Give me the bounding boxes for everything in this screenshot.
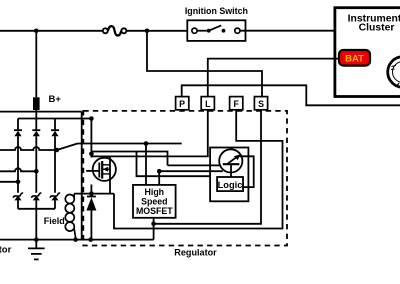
rectifier bottom bus bbox=[18, 208, 55, 210]
node junction dot B+ bus bbox=[89, 116, 94, 121]
transistor Q2 base stem to logic bbox=[230, 164, 232, 177]
fuse F1 left terminal circle bbox=[103, 28, 108, 33]
wire logic feed inside box bbox=[210, 170, 223, 172]
diode D4 avalanche bottom column1 bbox=[13, 193, 23, 200]
alternator case box (right edge) bbox=[81, 112, 83, 240]
svg-text:Ignition Switch: Ignition Switch bbox=[185, 6, 248, 16]
branch wire down to lower logic feed bbox=[137, 152, 211, 177]
svg-text:BAT: BAT bbox=[345, 53, 364, 64]
wire flyback diode anode to ground bus bbox=[90, 211, 92, 240]
svg-text:High: High bbox=[145, 187, 165, 197]
voltmeter gauge needle bbox=[397, 83, 400, 87]
instrument cluster box bbox=[335, 8, 400, 97]
node junction dot at fuse/alternator tap bbox=[145, 29, 150, 34]
ignition switch blade bbox=[209, 25, 222, 30]
node junction dot on main bus at B+ drop bbox=[34, 29, 39, 34]
svg-text:B+: B+ bbox=[49, 94, 62, 105]
voltmeter tiny dial markings bbox=[392, 66, 397, 67]
field node X stub (lower segment) bbox=[90, 185, 92, 197]
svg-text:P: P bbox=[179, 99, 185, 109]
diode D5 avalanche bottom column2 bbox=[32, 193, 42, 200]
MOSFET Q1 gate wire stub bbox=[86, 170, 99, 172]
node junction dot S sense tie bbox=[151, 222, 156, 227]
rectifier top bus (B+) bbox=[18, 118, 91, 120]
node junction dot driver stub bbox=[157, 169, 162, 174]
terminal box L bbox=[201, 97, 214, 110]
node junction dot field node X bbox=[89, 191, 94, 196]
svg-text:Cluster: Cluster bbox=[359, 22, 395, 33]
wire base feed inside box bbox=[210, 164, 223, 166]
wire junction down to S-terminal feed bbox=[147, 31, 262, 97]
B+ rail vertical inside regulator (upper segment) bbox=[90, 119, 92, 158]
fuse F1 squiggle element bbox=[108, 26, 121, 35]
wire emitter to F net bbox=[240, 156, 254, 187]
stator phase lead 3 with hops over columns bbox=[0, 147, 57, 150]
terminal box F bbox=[230, 97, 243, 110]
terminal box P bbox=[176, 97, 189, 110]
node junction dot phase2 bbox=[34, 169, 39, 174]
MOSFET Q1 drain riser bbox=[109, 156, 111, 164]
ignition switch contact dot right bbox=[222, 29, 226, 33]
wire field top lead to node X bbox=[73, 193, 75, 196]
svg-text:L: L bbox=[205, 99, 211, 109]
svg-text:Logic: Logic bbox=[218, 180, 243, 190]
voltmeter gauge inner dial arc bbox=[393, 62, 400, 83]
transistor module box bbox=[210, 148, 248, 202]
svg-text:Regulator: Regulator bbox=[174, 248, 217, 258]
MOSFET Q1 gate bar bbox=[98, 163, 100, 178]
wire switch terminals internal left bbox=[197, 30, 207, 32]
wire transistor base feed bbox=[168, 164, 223, 166]
wire main B+ feed from battery (left edge) to fuse bbox=[0, 30, 103, 32]
rectifier column 1 wire bbox=[17, 119, 19, 130]
logic box bbox=[217, 177, 243, 191]
wire S terminal sense bbox=[154, 97, 261, 224]
ignition switch left terminal bbox=[192, 28, 197, 33]
stator phase lead 2 with hop bbox=[0, 168, 36, 171]
stator phase tap diagonal to P line bbox=[57, 144, 78, 151]
wire node X horizontal bbox=[91, 193, 114, 195]
svg-text:Speed: Speed bbox=[141, 196, 167, 206]
ground bus / alternator bottom edge bbox=[0, 239, 154, 241]
wire driver box output stub to transistor feed bbox=[159, 171, 210, 185]
wire fuse to ignition switch bbox=[126, 30, 191, 32]
MOSFET Q1 body stub with arrow bbox=[102, 168, 110, 170]
diode D3 top rectifier column3 bbox=[51, 129, 59, 136]
wire P terminal to voltmeter (runs under cluster) bbox=[182, 85, 400, 105]
node junction dot rail/sense lines bbox=[89, 152, 94, 157]
BAT warning lamp red box bbox=[339, 50, 370, 66]
svg-text:S: S bbox=[258, 99, 264, 109]
stator phase lead 1 bbox=[0, 181, 18, 183]
ignition switch right terminal bbox=[235, 28, 240, 33]
wire L terminal to BAT lamp bbox=[208, 59, 339, 97]
wire B+ lead into alternator to rectifier top bus bbox=[35, 110, 37, 119]
flyback diode D7 across field bbox=[86, 196, 96, 211]
regulator dashed boundary box bbox=[83, 111, 287, 246]
transistor Q2 emitter arrow bbox=[227, 156, 238, 164]
svg-text:Field: Field bbox=[44, 216, 65, 226]
svg-text:Alternator: Alternator bbox=[0, 244, 12, 255]
MOSFET Q1 body circle bbox=[93, 158, 116, 181]
wire rectifier bottom bus to ground bus bbox=[35, 209, 37, 240]
fusible link (solid rectangle) on B+ lead bbox=[33, 97, 40, 110]
terminal box S bbox=[254, 97, 267, 110]
wire F net riser (field feed) bbox=[114, 97, 283, 229]
label High Speed MOSFET bbox=[136, 187, 173, 216]
voltmeter gauge circle in cluster bbox=[388, 57, 400, 88]
node junction dot flyback anode bbox=[88, 237, 93, 242]
MOSFET Q1 source stub bbox=[102, 173, 110, 175]
MOSFET Q1 channel bar bbox=[101, 161, 103, 179]
MOSFET Q1 drain stub bbox=[102, 164, 110, 166]
transistor Q2 body circle bbox=[219, 149, 242, 172]
transistor Q2 base bar bbox=[223, 163, 240, 165]
svg-text:MOSFET: MOSFET bbox=[136, 206, 173, 216]
node junction dot field bottom bbox=[73, 237, 78, 242]
node junction dot phase1 bbox=[16, 180, 21, 185]
stator P line inside regulator bbox=[78, 143, 182, 145]
diode D1 top rectifier column1 bbox=[14, 129, 22, 136]
ground symbol bbox=[28, 240, 45, 260]
rectifier column 3 wire bbox=[54, 119, 56, 130]
rectifier column 2 wire bbox=[35, 119, 37, 130]
fuse F1 right terminal circle bbox=[121, 28, 126, 33]
wire switch to instrument cluster bbox=[240, 30, 335, 32]
ignition switch box bbox=[187, 20, 245, 41]
high speed MOSFET driver box bbox=[133, 185, 176, 218]
wire alternator B+ drop from main bus bbox=[35, 31, 37, 98]
MOSFET Q1 source lead down to node X line bbox=[109, 165, 111, 194]
diode D6 avalanche bottom column3 bbox=[50, 193, 60, 200]
node junction dot P line bbox=[144, 141, 149, 146]
svg-text:F: F bbox=[234, 99, 240, 109]
wire driver box bottom stub to ground bus bbox=[153, 218, 155, 240]
wire P line drop to high speed mosfet box bbox=[145, 144, 147, 185]
ignition switch contact dot left bbox=[207, 29, 211, 33]
node junction dot phase3 bbox=[55, 148, 60, 153]
field winding L1 coil bbox=[65, 195, 75, 240]
node junction dot ground at rectifier bbox=[34, 237, 39, 242]
wire L-terminal sense line bbox=[91, 97, 207, 157]
alternator case box (top edge) bbox=[0, 111, 82, 113]
diode D2 top rectifier column2 bbox=[32, 129, 40, 136]
sense line B+ to logic network bbox=[91, 152, 167, 166]
